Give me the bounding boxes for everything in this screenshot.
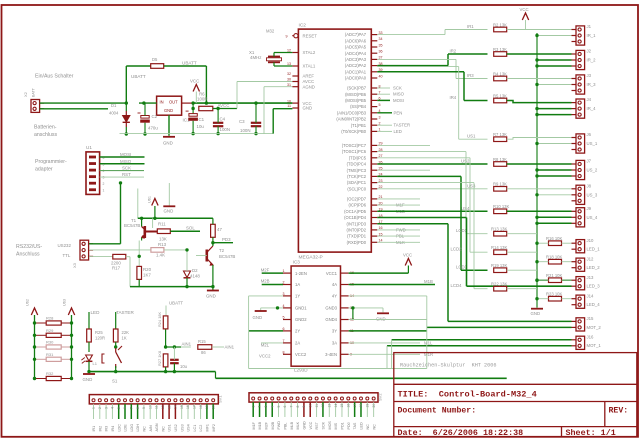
wire MOSI stub bbox=[377, 99, 390, 101]
wire C1 bottom bbox=[192, 121, 194, 134]
wire C4 bottom bbox=[217, 126, 219, 133]
svg-text:IR_1: IR_1 bbox=[587, 33, 597, 38]
svg-text:3-4EN: 3-4EN bbox=[325, 352, 337, 357]
wire PA2 row bbox=[377, 65, 448, 67]
svg-text:LDE: LDE bbox=[124, 424, 128, 432]
svg-text:2: 2 bbox=[258, 406, 262, 408]
wire v LCD3 bbox=[460, 176, 462, 270]
wire 3Y bbox=[349, 330, 427, 332]
ground IC3 right bbox=[377, 312, 389, 314]
switch S1 bbox=[102, 346, 122, 368]
junction battery plus bbox=[125, 101, 128, 104]
pin SV1-1 bbox=[92, 399, 95, 402]
wire TASTER stub bbox=[377, 124, 392, 126]
wire VCC rail bbox=[193, 102, 292, 104]
wire 2Y bbox=[249, 330, 283, 332]
svg-text:10u: 10u bbox=[180, 364, 188, 369]
svg-text:XTAL1: XTAL1 bbox=[303, 64, 316, 69]
svg-text:(T0/XCK)PB0: (T0/XCK)PB0 bbox=[341, 129, 367, 134]
pin SV2-9 bbox=[302, 397, 305, 400]
junction C3 rail bbox=[254, 101, 257, 104]
resistor R26 bbox=[113, 329, 118, 342]
junction LED_3 top bbox=[535, 279, 538, 282]
wire GND4 row bbox=[349, 319, 427, 321]
svg-text:LED: LED bbox=[91, 310, 101, 315]
svg-text:J10: J10 bbox=[587, 238, 595, 243]
wire to LED_3 pin bbox=[467, 285, 572, 287]
wire R13 right bbox=[164, 249, 187, 251]
svg-text:100N: 100N bbox=[240, 128, 251, 133]
resistor R32 bbox=[46, 376, 61, 380]
svg-text:14: 14 bbox=[174, 405, 178, 409]
junction C4 gnd bbox=[216, 132, 219, 135]
connector J6 US_1 bbox=[572, 134, 585, 153]
svg-text:8: 8 bbox=[136, 407, 140, 409]
svg-text:(INT1)PD3: (INT1)PD3 bbox=[346, 221, 366, 226]
resistor R8 bbox=[494, 162, 507, 167]
wire PC3 stub bbox=[377, 169, 430, 171]
svg-text:J13: J13 bbox=[587, 275, 595, 280]
wire R19 right bbox=[507, 269, 537, 271]
svg-text:3: 3 bbox=[104, 407, 108, 409]
wire down to VCC rail bbox=[205, 66, 207, 103]
wire US_2 bot pin bbox=[537, 175, 572, 177]
junction LED gnd bbox=[87, 370, 90, 373]
svg-text:TTL: TTL bbox=[63, 253, 71, 258]
junction R21 bbox=[535, 279, 538, 282]
svg-text:(SDA)PC1: (SDA)PC1 bbox=[347, 180, 367, 185]
svg-text:SCK: SCK bbox=[393, 86, 402, 91]
transistor T2 bbox=[207, 246, 213, 265]
junction US_4 mid bbox=[535, 216, 538, 219]
vcc symbol right column bbox=[522, 13, 528, 20]
lead vcc stem bbox=[195, 92, 197, 104]
capacitor C5 bbox=[170, 360, 179, 363]
svg-text:UBATT: UBATT bbox=[131, 74, 146, 79]
wire US_4 bot pin bbox=[537, 222, 572, 224]
svg-text:GND: GND bbox=[206, 294, 216, 299]
svg-text:RESET: RESET bbox=[303, 33, 318, 38]
svg-text:IC3: IC3 bbox=[293, 260, 301, 265]
wire US4 row bbox=[377, 210, 487, 212]
wire 3-4EN bbox=[349, 353, 420, 355]
svg-text:VCC2: VCC2 bbox=[295, 352, 307, 357]
pin SV1-10 bbox=[149, 399, 152, 402]
wire PA1 row bbox=[377, 71, 464, 73]
wire LED top bbox=[88, 312, 90, 329]
svg-text:10: 10 bbox=[287, 99, 291, 103]
svg-text:14: 14 bbox=[334, 404, 338, 408]
svg-text:RST: RST bbox=[122, 172, 131, 177]
pin SV2-18 bbox=[359, 397, 362, 400]
junction C2 gnd bbox=[143, 132, 146, 135]
wire to D5 bbox=[126, 65, 150, 67]
svg-text:R10 13K: R10 13K bbox=[493, 204, 510, 209]
wire PC7 stub bbox=[377, 144, 430, 146]
svg-text:13K: 13K bbox=[159, 237, 167, 242]
svg-text:M1B: M1B bbox=[258, 421, 262, 429]
wire emitter drop bbox=[138, 241, 140, 267]
pin SV2-3 bbox=[264, 397, 267, 400]
pin SV1-6 bbox=[124, 399, 127, 402]
wire R4 to connector bbox=[507, 78, 572, 80]
junction D5 feed bbox=[205, 101, 208, 104]
wire 1Y to loop bbox=[249, 295, 283, 297]
wire rail gnd stub bbox=[536, 305, 538, 308]
wire into regulator bbox=[139, 102, 157, 104]
wire C5 bottom bbox=[173, 363, 175, 371]
junction switch gnd bbox=[114, 370, 117, 373]
svg-text:10u: 10u bbox=[197, 124, 205, 129]
svg-text:C4: C4 bbox=[220, 117, 226, 122]
svg-text:(AIN1/OC0)PB3: (AIN1/OC0)PB3 bbox=[337, 110, 367, 115]
pin SV1-2 bbox=[98, 399, 101, 402]
svg-text:3: 3 bbox=[264, 406, 268, 408]
resistor R22 bbox=[494, 286, 507, 291]
wire rail step bbox=[215, 372, 217, 379]
svg-text:LED_2: LED_2 bbox=[587, 265, 601, 270]
lead AIN1 bbox=[181, 346, 191, 348]
svg-text:MOSI: MOSI bbox=[393, 98, 404, 103]
ground regulator bbox=[163, 136, 175, 138]
ground T1 stage bbox=[207, 290, 219, 292]
junction R31 left bbox=[33, 358, 36, 361]
svg-text:R3 13K: R3 13K bbox=[493, 47, 507, 52]
pin SV1-13 bbox=[168, 399, 171, 402]
pin SV1-8 bbox=[136, 399, 139, 402]
svg-text:IR1: IR1 bbox=[467, 24, 474, 29]
wire R12 bottom bbox=[212, 237, 214, 242]
wire IR4 to R5 bbox=[464, 100, 488, 102]
svg-text:Programmier-: Programmier- bbox=[35, 159, 67, 165]
wire US_4 mid pin bbox=[537, 216, 572, 218]
wire R18 right bbox=[562, 261, 572, 263]
junction U1 down bbox=[119, 181, 122, 184]
lead R31 bbox=[35, 358, 47, 360]
svg-text:Ein/Aus Schalter: Ein/Aus Schalter bbox=[35, 74, 74, 80]
wire loop bottom bbox=[249, 368, 427, 370]
wire PA7 row bbox=[377, 34, 445, 36]
svg-text:D2: D2 bbox=[192, 268, 198, 273]
wire gnd rail caps bbox=[120, 133, 274, 135]
svg-text:D1: D1 bbox=[111, 103, 117, 108]
svg-text:R5 13K: R5 13K bbox=[493, 93, 507, 98]
wire ladder right rail bbox=[71, 315, 73, 379]
lead R30 bbox=[35, 346, 47, 348]
svg-text:MLK: MLK bbox=[296, 421, 300, 429]
wire US_1 mid pin bbox=[537, 143, 572, 145]
wire PEN bbox=[377, 112, 392, 114]
svg-text:R4 13K: R4 13K bbox=[493, 71, 507, 76]
svg-text:4Y: 4Y bbox=[332, 294, 337, 299]
wire R5 to connector bbox=[507, 101, 572, 103]
svg-text:IC2: IC2 bbox=[299, 23, 307, 29]
pin SV2-14 bbox=[334, 397, 337, 400]
svg-text:11: 11 bbox=[315, 404, 319, 408]
svg-text:13: 13 bbox=[167, 405, 171, 409]
svg-text:(T1)PB1: (T1)PB1 bbox=[351, 123, 367, 128]
svg-text:R14 13K: R14 13K bbox=[491, 245, 508, 250]
wire R3 to connector bbox=[507, 53, 572, 55]
lead R32 bbox=[35, 378, 47, 380]
svg-text:J15: J15 bbox=[587, 316, 595, 321]
wire PC6 row bbox=[377, 151, 466, 153]
pin SV2-20 bbox=[372, 397, 375, 400]
svg-text:J14: J14 bbox=[587, 293, 595, 298]
svg-text:12: 12 bbox=[287, 49, 291, 53]
svg-text:R18 10K: R18 10K bbox=[546, 254, 563, 259]
pin SV1-12 bbox=[161, 399, 164, 402]
svg-text:MLB: MLB bbox=[290, 421, 294, 429]
wire PD3 net bbox=[213, 242, 233, 244]
junction R30 right bbox=[70, 345, 73, 348]
wire R21 right bbox=[562, 279, 572, 281]
svg-text:(ADC3)PA3: (ADC3)PA3 bbox=[345, 57, 367, 62]
wire T2 base bbox=[196, 255, 207, 257]
wire mot1 drop1 bbox=[391, 340, 393, 369]
wire US2 row bbox=[377, 163, 487, 165]
pin SV1-20 bbox=[212, 399, 215, 402]
wire PD1 stub bbox=[377, 235, 420, 237]
pin SV1-9 bbox=[142, 399, 145, 402]
resistor R23 bbox=[549, 296, 562, 301]
resistor R19 bbox=[494, 268, 507, 273]
wire T1 collector bbox=[141, 218, 143, 226]
wire M1B pin15 bbox=[349, 284, 435, 286]
wire switch bottom bbox=[115, 366, 117, 372]
junction R23 bbox=[535, 297, 538, 300]
wire vcc stem to rail bbox=[154, 206, 156, 218]
vcc symbol U$1 bbox=[152, 199, 158, 206]
svg-text:100N: 100N bbox=[220, 127, 231, 132]
svg-text:32: 32 bbox=[287, 72, 291, 76]
svg-text:MOS: MOS bbox=[328, 421, 332, 430]
svg-text:MEGA32-P: MEGA32-P bbox=[299, 255, 323, 261]
svg-text:1Y: 1Y bbox=[295, 294, 300, 299]
svg-text:M2F: M2F bbox=[264, 421, 268, 429]
svg-text:NC: NC bbox=[372, 424, 376, 430]
wire R16 left bbox=[537, 242, 549, 244]
svg-text:RST: RST bbox=[315, 421, 319, 429]
wire bottom gnd rail bbox=[89, 371, 216, 373]
junction C5 gnd bbox=[173, 370, 176, 373]
wire R7 to connector bbox=[507, 138, 572, 140]
svg-text:J12: J12 bbox=[587, 256, 595, 261]
svg-text:R17: R17 bbox=[112, 266, 121, 271]
junction IR_3 mid bbox=[535, 83, 538, 86]
svg-text:Date: 6/26/2006 18:22:38: Date: 6/26/2006 18:22:38 bbox=[398, 428, 524, 438]
vcc symbol ladder right bbox=[68, 308, 74, 315]
junction GND3 hook bbox=[351, 306, 354, 309]
svg-text:IR_4: IR_4 bbox=[587, 106, 597, 111]
wire GND1 bbox=[261, 307, 283, 309]
svg-text:1: 1 bbox=[251, 406, 255, 408]
wire v LCD4 bbox=[473, 183, 475, 289]
svg-text:(TDO)PC4: (TDO)PC4 bbox=[347, 162, 367, 167]
resistor R31 bbox=[46, 357, 61, 361]
svg-text:R9 13K: R9 13K bbox=[493, 182, 507, 187]
wire R17 drop bbox=[129, 257, 131, 287]
wire MOT_2 bottom bbox=[427, 326, 572, 328]
resistor R3 bbox=[494, 52, 507, 57]
svg-text:GND3: GND3 bbox=[325, 306, 337, 311]
pin SV2-16 bbox=[347, 397, 350, 400]
svg-text:BC547B: BC547B bbox=[219, 254, 235, 259]
svg-text:IR3: IR3 bbox=[105, 426, 109, 432]
svg-text:3Y: 3Y bbox=[332, 329, 337, 334]
svg-text:VCC: VCC bbox=[190, 79, 199, 84]
svg-text:X3: X3 bbox=[72, 262, 77, 268]
svg-text:1: 1 bbox=[103, 189, 105, 193]
wire R12 top bbox=[212, 218, 214, 224]
svg-text:(INT0)PD2: (INT0)PD2 bbox=[346, 228, 366, 233]
wire R20 bottom bbox=[138, 279, 140, 286]
svg-text:M2F: M2F bbox=[261, 267, 270, 272]
wire D1 to gnd rail bbox=[125, 127, 127, 134]
crystal X1 bbox=[267, 57, 282, 63]
svg-text:LDC: LDC bbox=[117, 424, 121, 432]
svg-text:11: 11 bbox=[155, 405, 159, 409]
svg-text:20: 20 bbox=[211, 405, 215, 409]
wire PA row extra bbox=[377, 66, 458, 68]
wire U2 top pin bbox=[89, 243, 121, 245]
pin SV2-8 bbox=[296, 397, 299, 400]
junction emitter bbox=[138, 255, 141, 258]
wire IR_3 mid pin bbox=[537, 84, 572, 86]
wire 4Y to loop bbox=[349, 295, 427, 297]
wire GND3 to GND4 bbox=[352, 308, 354, 320]
svg-text:R15: R15 bbox=[198, 339, 206, 344]
svg-text:R7 13K: R7 13K bbox=[493, 132, 507, 137]
resistor R9 bbox=[494, 187, 507, 192]
wire battery plus bbox=[40, 102, 127, 104]
svg-text:AIN1: AIN1 bbox=[225, 345, 235, 350]
wire RST bbox=[100, 176, 144, 178]
svg-text:R20: R20 bbox=[143, 267, 152, 272]
svg-text:22K: 22K bbox=[122, 330, 130, 335]
svg-text:AREF: AREF bbox=[303, 74, 315, 79]
wire LCD1 to R13 bbox=[466, 233, 488, 235]
svg-text:R13: R13 bbox=[158, 242, 167, 247]
junction US_4 bot bbox=[535, 222, 538, 225]
svg-text:(ADC6)PA6: (ADC6)PA6 bbox=[345, 38, 367, 43]
wire v LCD2 bbox=[469, 158, 471, 252]
svg-text:3A: 3A bbox=[332, 341, 337, 346]
wire PD0 stub bbox=[377, 241, 420, 243]
connector J2 IR_2 bbox=[572, 50, 585, 69]
op-amp U IC3 motor driver L293D bbox=[291, 266, 340, 366]
ground rail symbol bbox=[531, 308, 543, 310]
pin SV1-4 bbox=[111, 399, 114, 402]
wire LED_3 top pin bbox=[537, 279, 572, 281]
svg-text:PEN: PEN bbox=[394, 110, 403, 115]
wire LED stub bbox=[377, 130, 392, 132]
svg-text:MOT_2: MOT_2 bbox=[587, 325, 602, 330]
voltage regulator IC1 bbox=[157, 96, 182, 115]
svg-text:NC: NC bbox=[366, 424, 370, 430]
resistor R16 bbox=[549, 241, 562, 246]
svg-text:SV2: SV2 bbox=[378, 393, 383, 401]
capacitor C2 bbox=[138, 113, 150, 123]
svg-text:U$3: U$3 bbox=[63, 299, 67, 306]
svg-text:SCK: SCK bbox=[122, 166, 131, 171]
svg-text:PD1: PD1 bbox=[341, 422, 345, 429]
wire GND riser bbox=[272, 109, 274, 134]
lead gnd stem IC3 left bbox=[260, 308, 262, 311]
resistor R24 bbox=[163, 316, 168, 329]
wire US3 row bbox=[377, 188, 487, 190]
diode D1 bbox=[123, 111, 130, 127]
svg-text:UBATT: UBATT bbox=[169, 301, 183, 306]
svg-text:AGN: AGN bbox=[155, 423, 159, 431]
wire IR_2 bot pin bbox=[537, 65, 572, 67]
pin SV1-14 bbox=[174, 399, 177, 402]
resistor R13 bbox=[151, 248, 164, 253]
wire T1 bottom rail bbox=[130, 286, 213, 288]
svg-text:LC2: LC2 bbox=[199, 425, 203, 432]
wire R27 bottom bbox=[165, 367, 167, 372]
svg-text:VCC: VCC bbox=[309, 421, 313, 429]
wire C3 top bbox=[255, 103, 257, 123]
svg-text:R22 13K: R22 13K bbox=[491, 281, 508, 286]
svg-text:J4: J4 bbox=[587, 97, 592, 102]
resistor R11 bbox=[157, 229, 170, 234]
svg-text:(MOSI)PB5: (MOSI)PB5 bbox=[345, 98, 367, 103]
resistor R30 bbox=[46, 345, 61, 349]
svg-text:13: 13 bbox=[327, 404, 331, 408]
svg-text:IR1: IR1 bbox=[92, 426, 96, 432]
junction bottom rail gnd bbox=[211, 285, 214, 288]
svg-text:AIN: AIN bbox=[149, 425, 153, 431]
svg-text:(TCK)PC2: (TCK)PC2 bbox=[347, 174, 367, 179]
svg-text:C3: C3 bbox=[239, 119, 245, 124]
svg-text:18: 18 bbox=[359, 404, 363, 408]
wire R22 right bbox=[507, 288, 537, 290]
svg-text:(ADC0)PA0: (ADC0)PA0 bbox=[345, 76, 367, 81]
wire IR2 to R3 bbox=[448, 53, 488, 55]
wire MOT_1 top bbox=[392, 339, 572, 341]
resistor R20 bbox=[137, 266, 142, 279]
svg-text:2: 2 bbox=[103, 182, 105, 186]
svg-text:7: 7 bbox=[289, 406, 293, 408]
resistor R4 bbox=[494, 76, 507, 81]
svg-text:10: 10 bbox=[308, 404, 312, 408]
svg-text:IR_3: IR_3 bbox=[587, 82, 597, 87]
svg-text:SCK: SCK bbox=[322, 421, 326, 429]
resistor R21 bbox=[549, 278, 562, 283]
svg-text:R11: R11 bbox=[158, 222, 166, 227]
resistor R28 bbox=[46, 321, 61, 325]
svg-text:5: 5 bbox=[277, 406, 281, 408]
title block frame bbox=[394, 353, 637, 437]
svg-text:US3: US3 bbox=[180, 424, 184, 431]
svg-text:1-2EN: 1-2EN bbox=[295, 271, 307, 276]
wire LCD3 to R19 bbox=[461, 269, 488, 271]
pin SV2-19 bbox=[366, 397, 369, 400]
svg-text:(TOSC2)PC7: (TOSC2)PC7 bbox=[342, 143, 367, 148]
wire to D1 bbox=[125, 103, 127, 111]
wire SCK stub bbox=[377, 87, 390, 89]
svg-text:LDH: LDH bbox=[136, 424, 140, 432]
svg-text:4A: 4A bbox=[332, 282, 337, 287]
pin SV1-3 bbox=[105, 399, 108, 402]
junction C1 rail bbox=[191, 101, 194, 104]
svg-text:GND: GND bbox=[303, 106, 313, 111]
lead T1 base bbox=[145, 231, 158, 233]
svg-text:D5: D5 bbox=[152, 57, 158, 62]
junction C2 top bbox=[142, 101, 145, 104]
wire D2 bottom bbox=[186, 278, 188, 287]
